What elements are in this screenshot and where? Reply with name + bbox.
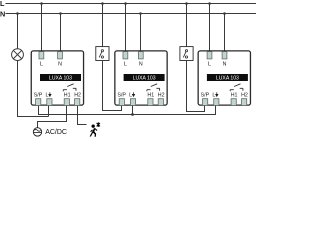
wire lamp E1 down bbox=[17, 61, 19, 117]
top terminal N of B1 bbox=[58, 52, 63, 59]
top terminal L of B1 bbox=[39, 52, 44, 59]
junction N / B2 bbox=[139, 12, 142, 15]
svg-text:L: L bbox=[208, 62, 211, 68]
svg-text:AC/DC: AC/DC bbox=[45, 129, 67, 136]
junction N / B3 bbox=[223, 12, 226, 15]
wire N to lamp E1 bbox=[17, 14, 19, 49]
svg-text:N: N bbox=[139, 62, 143, 68]
wire S1 to B2 S/P bbox=[103, 61, 122, 111]
wire B2 L-down drop bbox=[132, 106, 134, 115]
wire L to B3 terminal L bbox=[209, 4, 211, 53]
push button S2 bbox=[180, 47, 193, 61]
wire N to B1 terminal N bbox=[60, 14, 62, 53]
wire L to push button S2 bbox=[186, 4, 188, 47]
wire N rail bbox=[6, 13, 257, 15]
motion star bbox=[97, 122, 100, 127]
svg-text:L: L bbox=[124, 62, 127, 68]
junction N / lamp bbox=[16, 12, 19, 15]
svg-text:N: N bbox=[58, 62, 62, 68]
wire L to B1 terminal L bbox=[41, 4, 43, 53]
wire L rail bbox=[6, 3, 257, 5]
top terminal L of B2 bbox=[123, 52, 128, 59]
top terminal N of B3 bbox=[222, 52, 227, 59]
junction L / S2 bbox=[185, 2, 188, 5]
lamp E1 bbox=[12, 49, 24, 61]
wire B1 L-down drop bbox=[48, 106, 50, 117]
wire B1 H2 stub bbox=[78, 106, 87, 125]
junction L / S1 bbox=[101, 2, 104, 5]
wire lamp to L-down terminal B1 bbox=[17, 116, 49, 118]
top terminal N of B2 bbox=[138, 52, 143, 59]
junction L / B3 bbox=[208, 2, 211, 5]
wire S2 to B3 S/P bbox=[187, 61, 205, 112]
svg-text:N: N bbox=[223, 62, 227, 68]
AC/DC supply G1 bbox=[33, 128, 41, 136]
top terminal L of B3 bbox=[207, 52, 212, 59]
detector B2 (LUXA 103) bbox=[115, 51, 167, 106]
wire S/P bus (B1 S/P to B3 L-down) bbox=[39, 106, 216, 115]
svg-text:L: L bbox=[0, 0, 5, 8]
wire N to B3 terminal N bbox=[224, 14, 226, 53]
junction L / B2 bbox=[124, 2, 127, 5]
junction L / B1 bbox=[40, 2, 43, 5]
push button S1 bbox=[96, 47, 109, 61]
wire L to push button S1 bbox=[102, 4, 104, 47]
svg-text:N: N bbox=[0, 9, 5, 18]
detector B3 (LUXA 103) bbox=[198, 51, 250, 106]
detector B1 (LUXA 103) bbox=[31, 51, 83, 106]
junction bus / B2 L-down bbox=[131, 113, 134, 116]
wire N to B2 terminal N bbox=[140, 14, 142, 53]
wire L to B2 terminal L bbox=[125, 4, 127, 53]
wire B1 H1 to AC/DC supply bbox=[38, 106, 67, 128]
svg-text:L: L bbox=[40, 62, 43, 68]
junction N / B1 bbox=[59, 12, 62, 15]
motion person icon bbox=[90, 124, 98, 136]
